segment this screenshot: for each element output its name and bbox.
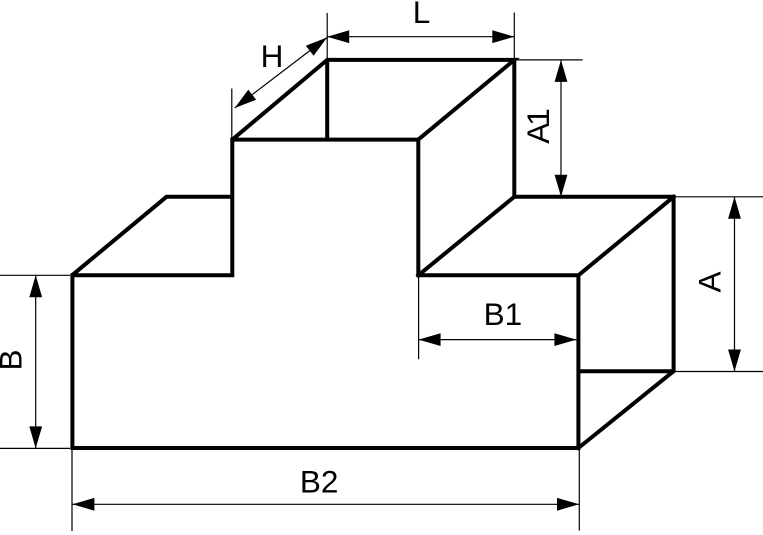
dimension A1 extension line [514,59,582,61]
svg-text:L: L [413,0,431,30]
right end top slant [578,197,673,275]
dimension B extension lines [0,274,70,276]
dimension B arrows [29,275,42,297]
dimension L extension lines [326,13,328,60]
svg-text:B2: B2 [300,464,339,500]
dimension B1 line [419,339,577,341]
dimension A extension lines [674,196,763,198]
svg-text:H: H [261,38,284,74]
dimension L arrows [327,30,349,43]
dimension L line [327,36,514,38]
dimension B1 extension line [418,277,420,359]
svg-text:A1: A1 [520,110,556,144]
svg-text:B1: B1 [484,296,523,332]
dimension B2 arrows [72,498,94,511]
branch top face edges [232,60,514,140]
dimension H arrows [235,90,256,108]
svg-text:B: B [0,349,29,370]
branch inner back-left edge [325,60,329,140]
dimension H extension line [231,89,233,140]
branch back-right and body back edge [514,60,673,371]
dimension A1 arrows [555,60,568,82]
dimension B2 extension lines [71,450,73,531]
svg-text:A: A [692,271,728,292]
body left-arm top face edges [72,197,232,275]
dimension H line [235,37,328,108]
dimension B2 line [72,503,579,505]
dimension A line [734,197,736,372]
dimension B1 arrows [419,333,441,346]
right end inner bottom edge [578,369,673,373]
branch right wall / body top slant [418,197,514,275]
tee body front outline [72,140,578,448]
dimension A1 line [560,60,562,197]
dimension B line [35,275,37,448]
dimension A arrows [728,197,741,219]
right end bottom slant [578,371,673,448]
